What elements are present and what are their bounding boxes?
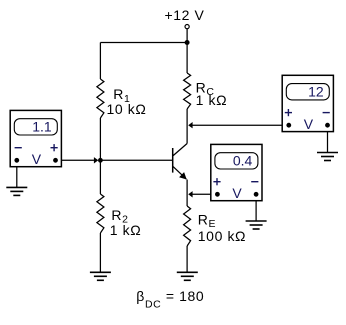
svg-text:+12 V: +12 V	[165, 7, 205, 23]
svg-text:1.1: 1.1	[32, 119, 52, 135]
svg-text:V: V	[32, 151, 42, 167]
svg-text:V: V	[304, 116, 314, 132]
svg-text:0.4: 0.4	[233, 153, 253, 169]
svg-text:12: 12	[308, 84, 324, 100]
svg-text:100 kΩ: 100 kΩ	[198, 228, 246, 244]
svg-text:1 kΩ: 1 kΩ	[196, 92, 228, 108]
svg-text:10 kΩ: 10 kΩ	[107, 101, 147, 117]
svg-text:V: V	[232, 185, 242, 201]
svg-text:1 kΩ: 1 kΩ	[110, 222, 142, 238]
